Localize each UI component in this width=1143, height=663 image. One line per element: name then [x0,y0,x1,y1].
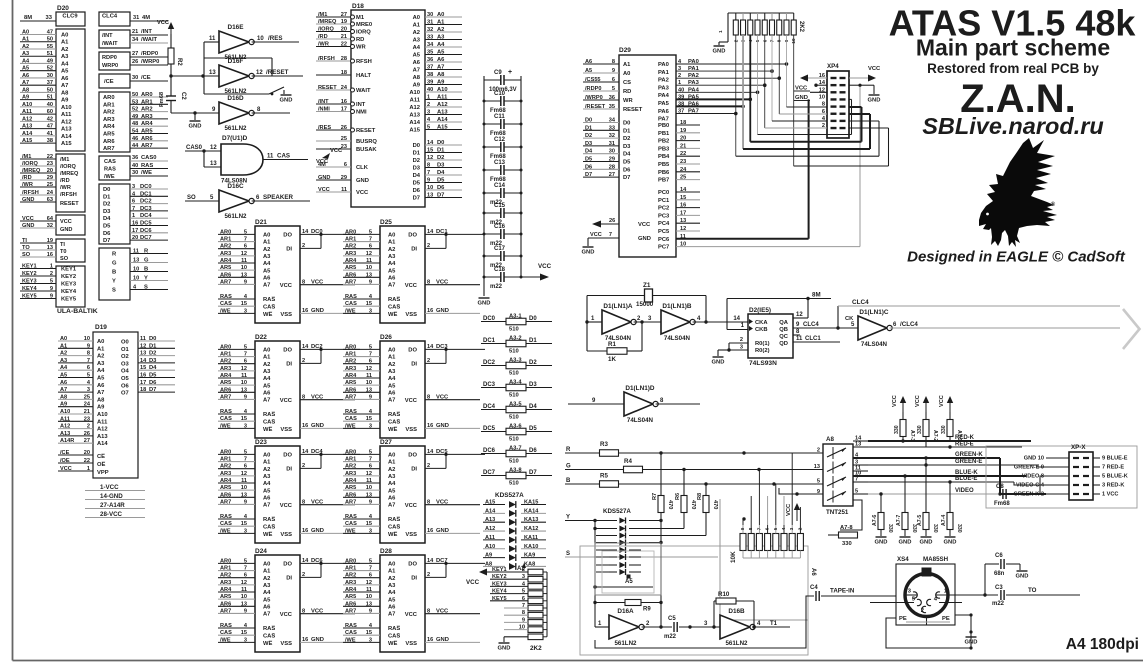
svg-text:HALT: HALT [356,73,371,79]
svg-text:31: 31 [427,20,433,26]
svg-text:/INT: /INT [141,29,152,35]
svg-text:B: B [144,267,148,273]
svg-text:VCC: VCC [318,187,330,193]
wire net Y luminance line [565,515,617,523]
svg-text:/RDP0: /RDP0 [585,86,601,92]
module boundary tape section gray box [580,546,808,655]
svg-text:10: 10 [819,94,825,100]
svg-text:D20: D20 [57,5,69,12]
svg-text:A4: A4 [388,481,396,487]
svg-text:9: 9 [796,322,800,328]
svg-text:A6: A6 [437,57,445,63]
svg-text:DO: DO [283,233,292,239]
svg-text:VCC: VCC [356,190,369,196]
resistor A7-1 330 pullup VCC [939,395,962,441]
svg-text:15: 15 [241,301,247,307]
wires D1D input output [568,398,700,404]
svg-text:A0: A0 [61,33,68,39]
IC D27 DRAM [380,439,425,543]
svg-text:A0: A0 [413,15,420,21]
svg-text:2: 2 [740,337,743,343]
svg-text:AR2: AR2 [220,244,231,250]
wire D20 CE output [130,75,168,81]
svg-text:/INT: /INT [102,33,113,39]
svg-text:44: 44 [132,143,139,149]
wires D21 RAS CAS WE pins [218,294,255,314]
svg-text:A7: A7 [263,612,270,618]
svg-text:/M1: /M1 [22,154,31,160]
svg-text:3: 3 [244,308,247,314]
ground symbol keyboard network [499,642,510,644]
svg-text:A6: A6 [388,604,396,610]
svg-text:/WE: /WE [220,637,231,643]
wires A8 left input pins [814,448,820,496]
capacitor C13 value Fm68 [483,160,523,183]
svg-text:KEY4: KEY4 [22,286,38,292]
svg-text:DC4: DC4 [140,213,152,219]
wires D25 address pins AR0-AR7 [343,229,380,285]
svg-text:C8: C8 [996,484,1004,490]
svg-text:27: 27 [84,438,90,444]
svg-text:A0: A0 [263,233,270,239]
svg-text:21: 21 [84,409,90,415]
svg-text:A7: A7 [263,503,270,509]
svg-text:D6: D6 [529,448,537,454]
svg-text:D0: D0 [149,336,156,342]
svg-text:O3: O3 [121,361,130,367]
svg-text:A6: A6 [22,73,29,79]
svg-text:10: 10 [366,380,372,386]
svg-text:PB7: PB7 [658,178,669,184]
svg-text:15: 15 [366,301,372,307]
svg-text:O7: O7 [121,391,129,397]
svg-text:24: 24 [84,402,91,408]
svg-text:50: 50 [47,87,53,93]
svg-text:510: 510 [509,371,519,377]
svg-text:9: 9 [87,343,90,349]
resistor A7-7 330 to ground [896,474,917,536]
svg-text:INT: INT [356,102,366,108]
wires VCC GND to D20 [20,216,56,229]
svg-text:15: 15 [427,148,433,154]
svg-text:/WE: /WE [104,174,115,180]
svg-text:AR7: AR7 [345,279,356,285]
svg-text:DI: DI [411,362,417,368]
svg-text:DO: DO [408,562,417,568]
wires D26 RAS CAS WE pins [343,409,380,429]
svg-text:VCC: VCC [311,609,324,615]
wire D16A output 2 to C5 [642,621,672,627]
svg-text:DI: DI [286,247,292,253]
svg-text:A5: A5 [625,579,633,585]
svg-text:A6: A6 [810,568,816,576]
svg-text:8: 8 [427,280,430,286]
svg-text:DC6: DC6 [140,228,152,234]
svg-text:11: 11 [241,587,247,593]
svg-text:KEY1: KEY1 [22,264,37,270]
svg-text:D7: D7 [413,196,420,202]
svg-text:D16A: D16A [617,608,634,615]
svg-text:A7-7: A7-7 [896,515,902,526]
svg-text:A9: A9 [60,402,67,408]
svg-text:6: 6 [612,77,615,83]
wire D22 DI input 2 [300,349,321,364]
svg-text:Fm68: Fm68 [994,501,1010,507]
svg-text:/NMI: /NMI [318,107,330,113]
svg-text:3: 3 [522,574,525,580]
svg-text:5: 5 [87,373,90,379]
svg-text:10: 10 [241,485,247,491]
capacitor C16 value m22 [483,224,523,247]
svg-text:74LS04N: 74LS04N [627,417,654,424]
wires D24 RAS CAS WE pins [218,623,255,643]
wire D16C output 6 SPEAKER [252,194,310,201]
svg-text:14: 14 [427,229,434,235]
svg-text:PB6: PB6 [658,170,670,176]
svg-text:33: 33 [46,15,53,21]
svg-text:11: 11 [341,187,347,193]
svg-text:GND: GND [1016,574,1029,580]
svg-text:DC0: DC0 [483,316,496,322]
svg-text:AR2: AR2 [103,110,115,116]
wires D25 RAS CAS WE pins [343,294,380,314]
svg-text:AR7: AR7 [220,279,231,285]
svg-text:22: 22 [84,458,90,464]
svg-text:18: 18 [140,387,146,393]
svg-text:D2: D2 [529,360,537,366]
svg-text:A7: A7 [60,387,67,393]
svg-text:52: 52 [132,107,138,113]
wire D20 CLC4 output 4M [130,15,168,21]
resistor network A6 10K array [730,525,816,576]
svg-text:VIDEO: VIDEO [955,488,974,494]
svg-text:A1: A1 [60,343,67,349]
svg-text:A8: A8 [437,72,445,78]
svg-text:2: 2 [302,572,305,578]
svg-text:14: 14 [302,558,309,564]
svg-text:KA9: KA9 [524,553,535,559]
wire D22 VCC pin 8 [300,395,355,401]
svg-text:7: 7 [609,232,612,238]
svg-text:PA1: PA1 [688,66,700,72]
wire D21 VSS pin 16 GND [300,308,355,314]
svg-text:16: 16 [427,423,433,429]
svg-text:A0: A0 [263,562,270,568]
wire A5 right bus [659,519,662,629]
wires XP4 left pins 16 14 12 10 8 6 4 2 [807,73,827,129]
svg-text:D2: D2 [437,155,444,161]
wires D18 left control pins [316,12,355,193]
svg-text:17: 17 [680,210,686,216]
wire R7 bottom to Y diode row [660,513,662,521]
svg-text:510: 510 [509,459,519,465]
wire D1B output node [693,296,748,324]
diode array KDS527A address lines [483,492,546,570]
svg-text:/WE: /WE [220,308,231,314]
svg-text:WE̅: WE̅ [263,426,272,433]
resistor R9 feedback D16A [595,600,661,613]
svg-text:14: 14 [427,558,434,564]
svg-text:PC1: PC1 [658,198,670,204]
svg-text:PC5: PC5 [658,229,670,235]
svg-text:RESET: RESET [318,85,337,91]
svg-text:9: 9 [592,398,596,404]
svg-text:PC0: PC0 [658,190,669,196]
svg-text:10: 10 [133,276,139,282]
svg-text:RESET: RESET [623,107,643,113]
svg-text:6: 6 [244,244,247,250]
IC D25 DRAM [380,219,425,323]
svg-text:VCC: VCC [311,500,324,506]
svg-text:DO: DO [408,453,417,459]
svg-text:D24: D24 [255,548,267,555]
svg-text:AR0: AR0 [345,449,356,455]
wire CAS0 to D7 inputs 12 13 [185,145,221,167]
svg-text:9: 9 [427,178,430,184]
svg-text:D1: D1 [149,343,157,349]
svg-text:30: 30 [427,12,433,18]
ground symbol D29 [583,246,594,248]
svg-text:19: 19 [47,238,53,244]
svg-text:/MREQ: /MREQ [318,19,337,25]
svg-text:WE̅: WE̅ [263,311,272,318]
wire D1C output /CLC4 [890,321,1120,328]
diode array A5 KDS527A video mixer [595,508,706,585]
svg-text:VCC: VCC [405,398,418,404]
svg-text:AR2: AR2 [345,573,356,579]
resistor A3-5 value 510 [481,402,552,421]
svg-text:5: 5 [522,589,525,595]
svg-text:17: 17 [132,228,138,234]
wire PC7 riser to XP4 pin 13 [858,84,861,247]
svg-text:GND: GND [498,646,511,652]
svg-text:CAS: CAS [345,416,357,422]
wire D24 DI input 2 [300,563,321,578]
svg-text:PC3: PC3 [658,213,670,219]
svg-text:VCC: VCC [405,283,418,289]
svg-text:A4 180dpi: A4 180dpi [1066,636,1139,653]
inverter D16E [219,31,249,53]
wire net S sync line [565,551,718,557]
wire C5 to D16B input 3 [700,601,720,629]
wire D23 DO output 14 DC4 [300,449,360,456]
wire R8 bottom to diode row 3 [705,513,707,536]
svg-text:/WE: /WE [345,528,356,534]
wires D18 address outputs A0-A15 [425,12,462,131]
svg-text:®: ® [1051,201,1056,208]
capacitor C15 value m22 [483,203,523,226]
svg-text:A4: A4 [22,58,30,64]
svg-text:D4: D4 [623,152,631,158]
svg-text:8: 8 [302,500,305,506]
svg-text:VCC: VCC [436,500,449,506]
svg-text:A1: A1 [388,355,396,361]
svg-text:DC5: DC5 [140,221,152,227]
svg-text:A0: A0 [388,453,395,459]
svg-text:/M1: /M1 [318,12,327,18]
svg-text:A0: A0 [388,348,395,354]
svg-text:9: 9 [244,608,247,614]
svg-text:GND: GND [920,540,933,546]
wire D24 DO output 14 DC6 [300,558,360,565]
svg-text:3: 3 [648,316,652,322]
IC D19 ROM [93,324,138,478]
svg-text:8M: 8M [812,292,821,299]
wire D1C input label CK 5 [845,316,855,328]
resistor A3-2 value 510 [481,336,552,355]
svg-text:16: 16 [427,637,433,643]
svg-text:561LN2: 561LN2 [614,640,637,647]
svg-text:A12: A12 [97,427,108,433]
resistor A7-2 330 pullup VCC [915,395,938,447]
module boundary A5 outer box [595,543,661,595]
svg-text:2: 2 [427,358,430,364]
svg-text:22: 22 [680,151,686,157]
svg-text:A4: A4 [60,365,68,371]
svg-text:GND: GND [638,236,651,242]
svg-text:AR6: AR6 [220,387,231,393]
svg-text:28-VCC: 28-VCC [100,511,123,518]
resistor network A2 2K2 keyboard [490,563,547,640]
svg-text:/IORQ: /IORQ [318,27,334,33]
svg-text:37: 37 [427,65,433,71]
DIN connector XS4 MA85SH [870,556,962,625]
svg-text:C11: C11 [494,114,505,120]
svg-text:D4: D4 [103,216,111,222]
svg-text:CAS: CAS [345,521,357,527]
ground symbol XS4 [966,636,977,638]
svg-text:m22: m22 [664,634,677,640]
wire QD pin 11 CLC1 [793,336,840,342]
svg-text:GND: GND [318,175,330,181]
svg-text:330: 330 [956,524,962,533]
svg-text:14: 14 [302,344,309,350]
svg-text:/RFSH: /RFSH [60,192,77,198]
ground symbol A7-7 [900,536,911,538]
svg-text:30: 30 [132,170,138,176]
wire D26 VCC pin 8 [425,395,480,401]
svg-text:D7: D7 [585,172,592,178]
svg-text:BUSRQ: BUSRQ [356,139,377,145]
svg-text:AR5: AR5 [345,485,356,491]
svg-text:/CE: /CE [60,450,70,456]
svg-text:A7: A7 [263,398,270,404]
svg-text:1: 1 [87,466,90,472]
svg-text:A13: A13 [409,113,420,119]
wires D23 address pins AR0-AR7 [218,449,255,505]
wire D27 VSS pin 16 GND [425,528,480,534]
svg-text:12: 12 [241,471,247,477]
wires D20 video outputs R G B Y S [112,249,168,294]
svg-text:A3-1: A3-1 [509,314,522,320]
svg-text:1: 1 [132,213,135,219]
svg-text:35: 35 [609,104,615,110]
svg-text:CLC4: CLC4 [803,322,819,328]
svg-text:A9: A9 [413,83,421,89]
IC D21 DRAM [255,219,300,323]
svg-text:7: 7 [427,170,430,176]
svg-text:D4: D4 [585,149,593,155]
svg-text:CKA: CKA [755,320,768,326]
svg-text:561LN2: 561LN2 [224,213,247,220]
net label VCC at XP4 pin 14 [794,86,810,92]
svg-text:WR: WR [623,98,633,104]
svg-text:9: 9 [369,279,372,285]
wires D28 RAS CAS WE pins [343,623,380,643]
svg-text:A1: A1 [623,62,631,68]
svg-text:510: 510 [509,327,519,333]
svg-text:11: 11 [366,478,372,484]
svg-text:AR3: AR3 [345,251,356,257]
svg-text:IORQ: IORQ [356,30,371,36]
svg-text:2: 2 [427,463,430,469]
svg-text:A7: A7 [413,68,420,74]
svg-text:42: 42 [47,116,53,122]
svg-text:7: 7 [855,477,858,483]
svg-text:A4: A4 [61,61,69,67]
svg-text:561LN2: 561LN2 [725,640,748,647]
net label GND at XP4 pin 12 [794,95,810,101]
svg-text:WE̅: WE̅ [388,426,397,433]
svg-text:DI: DI [411,247,417,253]
svg-text:A7-2: A7-2 [932,430,938,441]
svg-text:10K: 10K [730,551,737,563]
svg-text:KEY4: KEY4 [61,289,77,295]
svg-text:DI: DI [286,576,292,582]
svg-text:VCC: VCC [436,609,449,615]
svg-text:34: 34 [427,42,434,48]
inverter D1(LN1)C 74LS04N [858,316,887,340]
svg-text:AR0: AR0 [220,344,231,350]
svg-text:16: 16 [341,99,347,105]
wire D29 GND pin 7 [588,232,619,246]
svg-text:R: R [566,447,571,453]
svg-text:A14: A14 [437,117,448,123]
svg-text:A5: A5 [263,488,271,494]
svg-text:330: 330 [917,425,923,434]
wires TI T0 SO to D20 [20,238,56,258]
svg-text:AR6: AR6 [220,492,231,498]
svg-text:3: 3 [244,637,247,643]
svg-text:A14: A14 [61,134,72,140]
svg-text:2: 2 [678,73,681,79]
svg-text:A3: A3 [263,369,271,375]
svg-text:PA6: PA6 [658,109,670,115]
wire GREEN-E video line [868,459,1046,467]
svg-text:12: 12 [796,312,803,318]
svg-text:10: 10 [84,336,90,342]
svg-text:KA13: KA13 [524,517,538,523]
wire 8M to D20 pin 33 [20,15,56,21]
svg-text:2: 2 [427,102,430,108]
svg-text:D2: D2 [623,136,630,142]
svg-text:14-GND: 14-GND [100,493,123,500]
svg-text:D0: D0 [413,143,420,149]
wire D16B output 4 T1 [752,621,790,629]
svg-text:A11: A11 [61,112,72,118]
svg-text:CLC1: CLC1 [805,336,821,342]
VCC pullup arrows at D18 BUSRQ BUSAK [316,148,343,165]
svg-text:A12: A12 [485,526,495,532]
svg-text:A5: A5 [413,53,421,59]
svg-text:GND: GND [899,540,912,546]
svg-text:9: 9 [612,68,615,74]
svg-text:AR4: AR4 [220,478,232,484]
svg-text:A4: A4 [263,261,271,267]
svg-text:A3-7: A3-7 [509,446,522,452]
svg-text:QB: QB [779,327,788,333]
svg-text:23: 23 [680,159,686,165]
